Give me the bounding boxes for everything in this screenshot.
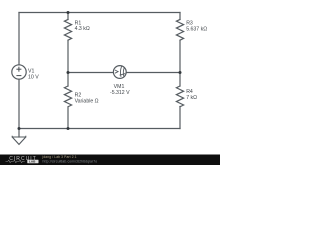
svg-text:4.3 kΩ: 4.3 kΩ (75, 26, 90, 32)
svg-text:10 V: 10 V (28, 75, 39, 81)
voltage source V1 plus sign (16, 67, 21, 76)
wire R4 top lead (179, 73, 181, 87)
resistor R2 zigzag (64, 86, 71, 107)
wire R2 top lead (67, 73, 69, 87)
wire left vertical upper (top corner to V1 top) (18, 13, 20, 65)
resistor R1 zigzag (64, 19, 71, 40)
svg-text:Variable Ω: Variable Ω (75, 99, 99, 105)
wire middle right (voltmeter to node B) (126, 72, 180, 74)
junction node dots (18, 11, 182, 130)
svg-text:LAB: LAB (29, 160, 36, 164)
wire R2 bottom lead (67, 108, 69, 129)
wire R1 top lead (67, 13, 69, 20)
node ground (18, 127, 21, 130)
svg-text:http://circuitlab.com/c62h6dqi: http://circuitlab.com/c62h6dqiar7o (43, 159, 98, 163)
voltmeter VM1 circle (113, 66, 126, 79)
ground symbol (12, 136, 26, 145)
wire R1 bottom lead to node A (67, 41, 69, 73)
watermark bar (0, 155, 220, 166)
wire R3 top lead (179, 13, 181, 20)
wire top horizontal (19, 12, 180, 14)
node top (R1/top wire) (67, 11, 70, 14)
voltmeter VM1 internal symbol (115, 66, 125, 77)
CircuitLab logo (6, 156, 39, 164)
wire R4 bottom lead (179, 107, 181, 129)
resistor R4 zigzag (176, 86, 183, 107)
resistor R3 zigzag (176, 19, 183, 40)
node A (67, 71, 70, 74)
voltage source V1 circle (12, 65, 26, 79)
wire R3 bottom lead to node B (179, 41, 181, 73)
voltage source V1 minus sign (16, 75, 21, 77)
svg-text:7 kΩ: 7 kΩ (186, 95, 197, 101)
wire bottom horizontal rail (19, 128, 180, 130)
wire ground stub (18, 129, 20, 138)
node B (179, 71, 182, 74)
wire left vertical lower (V1 bottom to bottom rail) (18, 79, 20, 128)
svg-text:5.637 kΩ: 5.637 kΩ (186, 27, 207, 33)
node bottom (R2/bottom rail) (67, 127, 70, 130)
svg-text:-5.312 V: -5.312 V (110, 90, 130, 96)
wire middle left (node A to voltmeter) (68, 72, 113, 74)
